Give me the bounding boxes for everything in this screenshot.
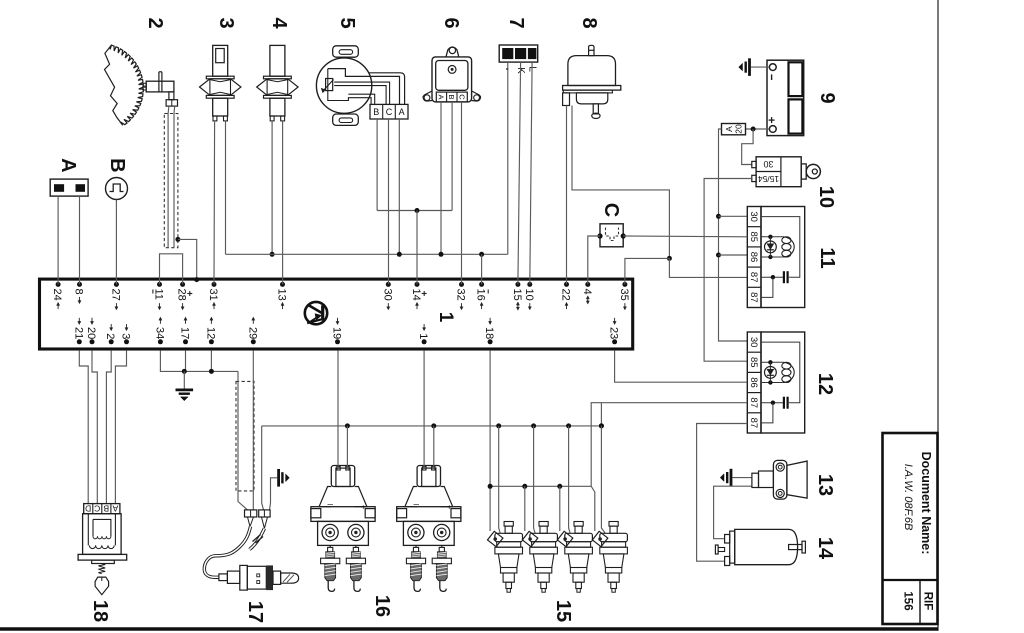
wire C to relay 11 pin 85: [623, 235, 747, 238]
svg-text:4: 4: [268, 17, 290, 29]
junction battery positive: [751, 127, 756, 132]
connector A: [50, 179, 88, 196]
svg-text:10: 10: [815, 186, 837, 208]
ground symbol at lambda heater: [279, 469, 290, 487]
wire TPS B to supply rail: [376, 119, 378, 211]
junction feed to relay 11 pin 86: [716, 253, 721, 258]
wire feed to relay 11 pin 30: [719, 215, 748, 217]
toothed wheel of sensor 2: [105, 45, 144, 125]
connector B C A of sensor 5: [370, 104, 408, 119]
svg-text:34: 34: [153, 327, 165, 339]
svg-text:A: A: [399, 107, 405, 117]
relay 12 (with pins 30 85 86 87 87, coil, diode, capacitor): [747, 332, 804, 433]
svg-text:1: 1: [435, 312, 456, 323]
svg-text:19: 19: [331, 327, 343, 339]
ECU pin 35: [618, 282, 630, 310]
svg-text:24: 24: [51, 289, 63, 301]
wire ECU pin 20 to module C: [92, 351, 97, 504]
svg-text:35: 35: [618, 289, 630, 301]
svg-text:32: 32: [455, 289, 467, 301]
svg-text:2: 2: [104, 333, 116, 339]
fuel injector 15-4: [592, 522, 627, 593]
svg-text:13: 13: [814, 474, 836, 496]
wire feed to relay 11 pin 86: [719, 254, 748, 256]
svg-text:15: 15: [511, 289, 523, 301]
svg-text:27: 27: [109, 289, 121, 301]
ECU pin 17: [179, 317, 191, 344]
svg-text:16: 16: [475, 289, 487, 301]
wire sensor3 right to ground rail: [225, 121, 227, 254]
wire sensor 2 right to cable: [173, 106, 176, 248]
svg-text:B: B: [373, 107, 379, 117]
svg-text:21: 21: [72, 327, 84, 339]
ECU pin 30: [381, 282, 393, 310]
injector signal rail: [490, 485, 591, 487]
svg-text:15: 15: [552, 600, 574, 622]
relay 11 (with pins 30 85 86 87 87, coil, diode, capacitor): [747, 207, 804, 308]
svg-text:11: 11: [153, 289, 165, 300]
wire junction to relay 11 pin 87: [669, 258, 747, 277]
wire 5V supply rail: [377, 210, 452, 212]
ECU pin 2: [104, 324, 116, 344]
svg-text:12: 12: [814, 373, 836, 395]
wire supply rail to injector 3: [569, 426, 571, 533]
shield of lambda sensor cable: [236, 381, 254, 491]
junction coil rail feed: [599, 423, 604, 428]
ignition switch 10: [752, 157, 821, 187]
ECU pin 23: [608, 318, 620, 345]
svg-text:D: D: [85, 504, 91, 514]
wire signal rail to injector 4: [591, 486, 595, 531]
wire switch 13 to fuel pump: [714, 486, 752, 539]
spark plug 16b1: [406, 545, 425, 591]
svg-text:86: 86: [748, 252, 759, 263]
wire ECU pin 23 to relay 12 pin 86: [615, 351, 748, 383]
lambda sensor connectors: [245, 510, 271, 517]
wire relay 12 pin 87 to injection feed: [591, 403, 747, 487]
wire relay 12 pin 87b to fuel pump: [697, 424, 748, 562]
svg-text:22: 22: [560, 289, 572, 301]
svg-text:C: C: [600, 203, 622, 217]
ECU pin 21: [72, 318, 84, 345]
junction ground drop: [182, 369, 187, 374]
svg-text:11: 11: [816, 247, 838, 268]
wire MAP A to ground rail: [440, 102, 442, 254]
svg-text:31: 31: [207, 289, 219, 301]
junction signal rail pin 18: [488, 484, 493, 489]
svg-text:20: 20: [734, 124, 744, 134]
svg-text:8: 8: [73, 289, 85, 295]
svg-text:15/54: 15/54: [758, 174, 780, 184]
ECU pin 10: [523, 282, 535, 310]
svg-text:3: 3: [120, 333, 132, 339]
ECU pin 31: [207, 282, 219, 309]
junction supply rail injector 1: [496, 423, 501, 428]
ECU pin 14: [410, 282, 427, 309]
wire TPS C to ECU pin 30: [388, 119, 390, 284]
ECU pin 16: [475, 282, 489, 309]
idle actuator 8: [563, 45, 621, 118]
pickup sensor 2 body: [143, 72, 178, 106]
ECU pin 3: [120, 324, 132, 344]
junction supply rail injector 4: [599, 423, 604, 428]
svg-text:C: C: [458, 94, 467, 100]
wire sensor 2 left to cable: [167, 106, 170, 248]
svg-text:30: 30: [748, 337, 759, 348]
wire ground rail into shield: [238, 371, 248, 510]
svg-text:12: 12: [204, 327, 216, 339]
wire supply rail to ECU pin 14: [416, 211, 418, 285]
svg-text:7: 7: [505, 17, 527, 28]
svg-text:18: 18: [483, 327, 495, 339]
page frame bottom border: [0, 627, 938, 631]
wire rail to coil 16b +: [433, 426, 435, 467]
junction sensor4 on ground rail: [270, 252, 275, 257]
svg-text:30: 30: [748, 211, 759, 222]
svg-text:l: l: [326, 504, 333, 506]
wire battery positive to ignition switch 30: [742, 129, 753, 165]
wire ECU pin 2 to module B: [106, 351, 111, 504]
wire ECU pin 34 to ground rail: [160, 351, 238, 372]
svg-text:17: 17: [179, 327, 191, 339]
junction signal rail injector 3: [557, 484, 562, 489]
svg-text:8: 8: [578, 17, 600, 28]
ECU pin 1: [417, 324, 429, 344]
svg-text:20: 20: [85, 327, 97, 339]
fuel pump 14: [715, 529, 805, 565]
svg-text:B: B: [103, 504, 109, 514]
temperature sensor 4: [257, 45, 298, 121]
junction supply rail injector 3: [566, 423, 571, 428]
ground symbol below ECU: [176, 390, 194, 401]
spark plug 16b2: [432, 545, 451, 591]
svg-text:23: 23: [608, 327, 620, 339]
ECU pin 19: [331, 318, 343, 345]
wire A pin1 to ECU pin 24: [57, 196, 59, 284]
junction supply rail injector 2: [531, 423, 536, 428]
wire sensor4 right to ECU pin 13: [282, 121, 284, 285]
junction signal rail injector 2: [522, 484, 527, 489]
ground symbol at battery negative: [739, 58, 750, 76]
fuse 20A: [722, 124, 746, 135]
svg-text:87: 87: [748, 272, 759, 283]
wire feed branch to coil rail: [600, 403, 602, 426]
wire cable fork to ECU pins 11 and 28: [160, 254, 183, 285]
ECU pin 18: [483, 318, 495, 345]
wire L line to ECU pin 10: [530, 62, 532, 284]
pin label dot: [506, 68, 508, 70]
lambda sensor cable: [204, 517, 267, 577]
wire ECU pin 17 to ground rail: [185, 351, 187, 372]
svg-text:A: A: [437, 94, 446, 99]
wire signal rail to injector 2: [524, 486, 526, 531]
svg-text:A: A: [724, 126, 734, 132]
shield of sensor 2 cable: [164, 114, 178, 248]
junction supply rail to pin 14: [415, 208, 420, 213]
svg-text:4: 4: [581, 289, 593, 295]
wire supply rail to injector 1: [499, 426, 501, 533]
svg-text:+: +: [444, 505, 453, 510]
svg-text:A: A: [57, 158, 79, 172]
svg-text:14: 14: [814, 537, 836, 560]
spark plug 16a2: [346, 545, 365, 591]
junction rail to coil 16a: [345, 423, 350, 428]
svg-text:30: 30: [763, 159, 773, 169]
ground symbol at switch 13: [720, 469, 731, 487]
ignition coil 16a: [311, 466, 375, 546]
junction pin 12 on ground rail: [209, 369, 214, 374]
ignition module 18: [78, 504, 127, 595]
ECU pin 13: [276, 282, 288, 309]
wire A pin2 to ECU pin 8: [79, 196, 81, 284]
fuel injector 15-1: [487, 522, 522, 593]
svg-text:87: 87: [748, 397, 759, 408]
wire rail to coil 16a +: [346, 426, 348, 467]
wire sensor3 left to ECU pin 31: [213, 121, 216, 285]
ECU pin 34: [153, 317, 165, 344]
junction rail to coil 16b: [431, 423, 436, 428]
ECU pin 29: [246, 317, 258, 344]
svg-text:30: 30: [381, 289, 393, 301]
svg-text:C: C: [94, 504, 100, 514]
ECU pin 4: [581, 282, 593, 304]
svg-text:28: 28: [176, 289, 188, 301]
svg-text:18: 18: [89, 600, 111, 622]
junction shield drain: [175, 237, 180, 242]
wire TPS A to ground rail: [398, 119, 400, 254]
ECU pin 12: [204, 317, 216, 344]
wire actuator 8 to junction: [572, 106, 669, 259]
wire junction to ECU pin 35: [625, 258, 670, 284]
inertia switch 13: [752, 460, 807, 499]
ECU pin 28: [176, 282, 193, 310]
supply rail to coils and lambda heater: [262, 425, 602, 427]
junction ground rail to pin 16: [479, 252, 484, 257]
ECU box U1 (component 1): [40, 279, 633, 349]
wire MAP C to ECU pin 32: [461, 102, 463, 285]
wire signal rail to injector 3: [559, 486, 561, 531]
svg-text:A: A: [112, 504, 118, 514]
svg-text:2: 2: [144, 17, 166, 28]
wire ground rail to ground: [183, 371, 185, 388]
ECU pin 24: [51, 282, 63, 309]
battery 9: [767, 60, 804, 135]
wire shield drain to ECU case: [178, 239, 197, 279]
wire connector7 pin1 to ground rail: [507, 62, 509, 254]
svg-text:87: 87: [748, 418, 759, 429]
wire battery positive to fuse: [746, 128, 770, 130]
ECU pin 8: [73, 282, 85, 304]
ECU pin 11: [153, 282, 165, 310]
svg-text:I.A.W. 08F.6B: I.A.W. 08F.6B: [902, 464, 914, 531]
junction feed to relay 11 pin 30: [716, 214, 721, 219]
svg-text:156: 156: [901, 591, 913, 610]
svg-text:6: 6: [440, 17, 462, 28]
ECU pin 27: [109, 282, 121, 310]
svg-text:B: B: [447, 94, 456, 99]
svg-text:B: B: [106, 158, 128, 172]
svg-text:87: 87: [748, 292, 759, 303]
fuel injector 15-3: [557, 522, 592, 593]
sensor ground rail wire: [226, 253, 508, 255]
wire battery negative to ground: [751, 66, 770, 68]
wire ECU pin 1 to coil 16b: [423, 351, 425, 467]
ECU pin 20: [85, 318, 97, 345]
diagnostic symbol inside ECU: [305, 302, 327, 324]
wire ECU pin 21 to module D: [79, 351, 88, 504]
sensor B (speed signal): [106, 178, 128, 200]
wire ECU pin 19 to coil 16a: [337, 351, 339, 467]
junction on ECU top edge: [194, 277, 199, 282]
wire ECU pin 18 to injector rail: [489, 351, 491, 531]
svg-text:13: 13: [276, 289, 288, 301]
wire heater feed from supply rail: [262, 426, 264, 510]
wire ground to switch 13: [732, 477, 752, 479]
ECU pin 32: [455, 282, 467, 310]
wire K line to ECU pin 15: [518, 62, 521, 284]
svg-text:85: 85: [748, 232, 759, 243]
wire supply rail to injector 4: [601, 426, 605, 533]
svg-text:5: 5: [336, 17, 358, 28]
wire sensor4 left to ground rail: [271, 121, 273, 254]
junction TPS A on ground rail: [397, 252, 402, 257]
svg-text:86: 86: [748, 377, 759, 388]
spark plug 16a1: [321, 545, 340, 591]
title block: [883, 433, 938, 624]
wire ECU pin 12 to ground rail: [210, 351, 212, 372]
wire B to ECU pin 27: [115, 200, 117, 285]
diagnostic connector 7: [499, 45, 538, 62]
junction MAP A on ground rail: [439, 252, 444, 257]
junction actuator return: [667, 256, 672, 261]
svg-text:14: 14: [410, 289, 422, 301]
wire MAP B to supply rail: [451, 102, 453, 211]
MAP sensor 6: [423, 47, 480, 102]
lambda sensor 17 body: [219, 565, 299, 590]
wire actuator 8 to ECU pin 22: [566, 106, 568, 285]
svg-text:85: 85: [748, 357, 759, 368]
svg-text:9: 9: [816, 92, 838, 103]
page frame right border: [937, 0, 939, 631]
svg-text:1: 1: [417, 333, 429, 339]
wire lambda heater to ground: [270, 478, 278, 510]
wire fuse to main feed: [719, 129, 748, 341]
wire ECU pin 29 lambda signal: [252, 351, 254, 510]
wire supply rail to injector 2: [534, 426, 536, 533]
svg-text:17: 17: [244, 601, 266, 623]
ECU pin 15: [511, 282, 523, 310]
wire C to ECU pin 4: [588, 236, 600, 284]
svg-text:+: +: [359, 505, 368, 510]
wire switch 15/54 to relay 12 pin 85: [704, 179, 752, 362]
svg-text:29: 29: [246, 327, 258, 339]
connector C: [597, 224, 625, 247]
svg-text:10: 10: [523, 289, 535, 301]
ignition coil 16b: [397, 466, 461, 546]
svg-text:Document Name:: Document Name:: [919, 452, 933, 555]
svg-text:RIF: RIF: [921, 592, 933, 611]
svg-text:C: C: [386, 107, 393, 117]
wire ground rail to ECU pin 16: [481, 254, 483, 284]
fuel injector 15-2: [522, 522, 557, 593]
wire ECU pin 3 to module A: [115, 351, 126, 504]
ECU pin 22: [560, 282, 572, 309]
svg-text:l: l: [411, 504, 418, 506]
throttle position sensor 5: [316, 46, 404, 126]
temperature sensor 3: [200, 45, 241, 121]
svg-text:16: 16: [371, 595, 393, 617]
svg-text:3: 3: [215, 17, 237, 28]
